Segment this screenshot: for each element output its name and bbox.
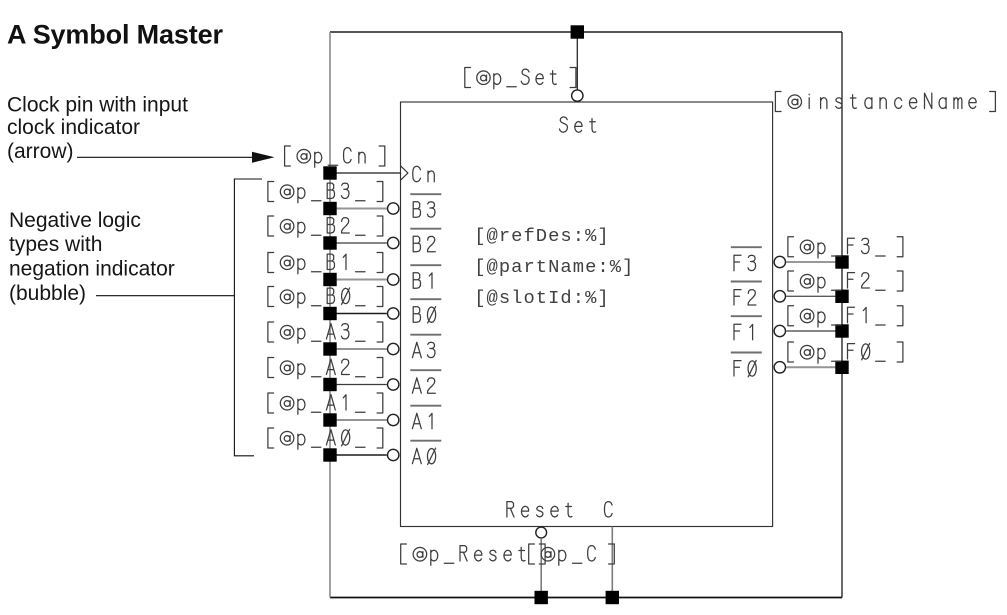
pin F1: name F1 with overline	[731, 315, 762, 317]
pin Set: label [@p_Set]	[465, 68, 576, 89]
pin B0: label [@p_B0_]	[268, 287, 383, 308]
leader line with arrowhead (clock note)	[77, 152, 275, 163]
pin A2: negation bubble	[388, 379, 399, 390]
pin F2: name F2 with overline	[731, 281, 762, 283]
pin B0: handle	[323, 307, 336, 320]
pin Set: name Set	[560, 117, 596, 132]
pin A1: negation bubble	[388, 414, 399, 425]
pin B2: name B2 with overline	[410, 228, 441, 230]
pin A3: wire	[330, 348, 387, 350]
pin C: handle	[606, 591, 619, 604]
pin C: wire	[611, 527, 613, 598]
pin Reset: handle	[535, 591, 548, 604]
pin B1: handle	[323, 273, 336, 286]
pin F3: wire	[786, 261, 842, 263]
pin B0: wire	[330, 313, 387, 315]
pin C: name C	[605, 502, 613, 517]
pin F1: negation bubble	[774, 325, 785, 336]
pin A0: name A0 with overline	[410, 440, 441, 442]
pin B3: name B3 with overline	[410, 193, 441, 195]
svg-text:[@slotId:%]: [@slotId:%]	[474, 287, 610, 309]
pin C: label [@p_C]	[529, 544, 615, 565]
pin F3: label [@p_F3_]	[788, 237, 903, 258]
pin F1: handle	[835, 324, 848, 337]
annotation: clock pin note	[7, 94, 188, 164]
svg-text:Negative logic: Negative logic	[9, 209, 141, 232]
pin F2: wire	[786, 295, 842, 297]
pin A1: label [@p_A1_]	[268, 393, 383, 414]
inner symbol body	[401, 102, 773, 527]
pin A1: wire	[330, 419, 387, 421]
pin F0: wire	[786, 366, 842, 368]
pin B0: name B0 with overline	[410, 298, 441, 300]
pin A0: handle	[323, 448, 336, 461]
pin Cn: name Cn	[413, 166, 435, 181]
pin B2: negation bubble	[388, 237, 399, 248]
svg-text:Clock pin with input: Clock pin with input	[7, 94, 188, 117]
pin A2: name A2 with overline	[410, 369, 441, 371]
pin Cn: label [@p_Cn]	[285, 146, 385, 167]
pin Set: wire	[576, 32, 578, 90]
svg-text:A Symbol Master: A Symbol Master	[7, 20, 223, 50]
pin A0: negation bubble	[388, 449, 399, 460]
pin Reset: wire	[540, 538, 542, 597]
pin F3: negation bubble	[774, 256, 785, 267]
pin F1: label [@p_F1_]	[788, 306, 903, 327]
pin Reset: label [@p_Reset]	[401, 544, 545, 565]
pin F0: label [@p_F0_]	[788, 342, 903, 363]
svg-text:negation indicator: negation indicator	[9, 258, 175, 281]
pin B3: label [@p_B3_]	[268, 182, 383, 203]
pin A1: name A1 with overline	[410, 405, 441, 407]
svg-text:clock indicator: clock indicator	[7, 116, 140, 139]
annotation: negative logic note	[9, 209, 175, 305]
pin B2: label [@p_B2_]	[268, 216, 383, 237]
pin B2: wire	[330, 242, 387, 244]
svg-text:[@partName:%]: [@partName:%]	[474, 256, 634, 278]
bracket grouping negative-logic pins	[234, 179, 262, 456]
pin A3: negation bubble	[388, 343, 399, 354]
pin B1: name B1 with overline	[410, 264, 441, 266]
pin A2: label [@p_A2_]	[268, 358, 383, 379]
pin F0: name F0 with overline	[731, 352, 762, 354]
pin B0: negation bubble	[388, 308, 399, 319]
pin F3: name F3 with overline	[731, 246, 762, 248]
pin A0: label [@p_A0_]	[268, 428, 383, 449]
pin Cn: wire	[330, 172, 401, 174]
pin A3: label [@p_A3_]	[268, 322, 383, 343]
svg-text:(bubble): (bubble)	[9, 282, 86, 305]
pin Set: negation bubble	[572, 90, 583, 101]
leader line (bubble note)	[96, 295, 234, 297]
pin B2: handle	[323, 236, 336, 249]
svg-text:(arrow): (arrow)	[7, 140, 74, 163]
pin Reset: negation bubble	[536, 527, 547, 538]
pin F1: wire	[786, 330, 842, 332]
pin A1: handle	[323, 413, 336, 426]
pin A2: wire	[330, 384, 387, 386]
outer symbol boundary	[330, 32, 842, 598]
pin B1: wire	[330, 279, 387, 281]
pin A0: wire	[330, 454, 387, 456]
pin A2: handle	[323, 378, 336, 391]
pin Cn: handle	[323, 166, 336, 179]
property labels: refDes / partName / slotId	[474, 225, 634, 309]
pin B3: wire	[330, 208, 387, 210]
pin Cn: clock indicator (arrow)	[401, 166, 408, 180]
pin B3: negation bubble	[388, 203, 399, 214]
pin F0: handle	[835, 361, 848, 374]
instance name label [@instanceName]	[775, 92, 995, 112]
pin B1: negation bubble	[388, 274, 399, 285]
pin B1: label [@p_B1_]	[268, 253, 383, 274]
svg-text:[@refDes:%]: [@refDes:%]	[474, 225, 610, 247]
svg-text:types with: types with	[9, 233, 102, 256]
pin B3: handle	[323, 202, 336, 215]
pin F2: negation bubble	[774, 291, 785, 302]
pin F2: label [@p_F2_]	[788, 271, 903, 292]
pin F2: handle	[835, 290, 848, 303]
pin Set: handle	[571, 25, 584, 38]
pin F0: negation bubble	[774, 362, 785, 373]
pin Reset: name Reset	[507, 502, 572, 517]
pin A3: name A3 with overline	[410, 334, 441, 336]
pin F3: handle	[835, 255, 848, 268]
pin A3: handle	[323, 342, 336, 355]
